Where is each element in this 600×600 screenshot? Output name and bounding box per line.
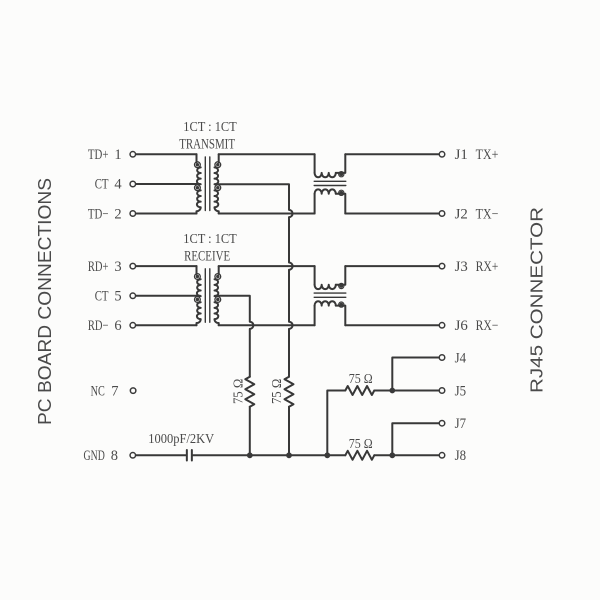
svg-text:4: 4: [114, 177, 122, 193]
svg-text:PC BOARD CONNECTIONS: PC BOARD CONNECTIONS: [35, 178, 55, 425]
svg-text:75 Ω: 75 Ω: [349, 436, 373, 451]
transformer T2 primary phase loop mid: [195, 297, 201, 303]
svg-text:RJ45 CONNECTOR: RJ45 CONNECTOR: [526, 207, 546, 393]
svg-text:RX−: RX−: [476, 318, 499, 334]
choke L2 bottom winding: [314, 306, 316, 326]
choke L1 bottom phase loop: [339, 190, 344, 195]
transformer T2 primary phase loop top: [195, 274, 201, 280]
resistor R2 75 ohm vertical: [285, 377, 294, 407]
transformer T2 primary winding: [196, 266, 198, 274]
junction node R2/ground rail: [286, 452, 292, 458]
junction node J4-branch/J5 row: [389, 388, 395, 394]
pin terminal 5: [130, 293, 136, 299]
svg-text:TD+: TD+: [88, 147, 109, 163]
phase dot choke L1 top: [339, 172, 343, 176]
wire T2 secondary center tap to resistor R1 with wire hop: [215, 296, 253, 377]
phase dot T2 primary top: [196, 275, 199, 278]
phase dot choke L1 bottom: [339, 191, 343, 195]
choke L1 bottom winding: [314, 194, 316, 214]
wire pin4 CT to T1 primary center tap: [136, 183, 200, 185]
svg-text:75 Ω: 75 Ω: [349, 371, 373, 386]
pin terminal 4: [130, 181, 136, 187]
svg-text:J4: J4: [455, 350, 467, 366]
svg-text:J3: J3: [455, 259, 468, 275]
phase dot choke L2 top: [339, 284, 343, 288]
transformer T1 secondary winding: [218, 154, 220, 162]
svg-text:1000pF/2KV: 1000pF/2KV: [148, 431, 214, 446]
wire T2 secondary bottom to choke L2: [219, 324, 315, 326]
wire choke L1 to J1: [345, 153, 438, 155]
capacitor C1 1000pF/2KV plates: [187, 450, 192, 461]
wire T1 secondary bottom to choke L1: [219, 213, 315, 215]
choke L2 top winding: [314, 266, 316, 285]
wire T1 secondary center tap to resistor R2 with wire hops: [215, 184, 293, 377]
svg-text:GND: GND: [84, 448, 105, 464]
resistor R4 75 ohm horizontal on ground rail: [345, 451, 374, 460]
svg-text:TRANSMIT: TRANSMIT: [179, 137, 235, 153]
wire T1 secondary top to choke L1: [219, 153, 315, 155]
pin terminal 2: [130, 211, 136, 217]
svg-text:J8: J8: [455, 448, 467, 464]
svg-text:2: 2: [114, 206, 121, 222]
phase dot T1 secondary top: [216, 163, 219, 166]
svg-text:J6: J6: [455, 318, 468, 334]
svg-text:75 Ω: 75 Ω: [230, 379, 245, 404]
svg-text:7: 7: [111, 383, 118, 399]
svg-text:CT: CT: [95, 289, 109, 305]
junction node J5-branch/ground rail: [324, 452, 330, 458]
wire choke L1 to J2: [345, 213, 438, 215]
terminal J1: [439, 152, 445, 158]
terminal J7: [439, 420, 445, 426]
phase dot choke L2 bottom: [339, 303, 343, 307]
svg-text:TX+: TX+: [476, 147, 499, 163]
svg-text:6: 6: [114, 318, 121, 334]
transformer T1 secondary phase loop top: [215, 162, 221, 168]
pin terminal 6: [130, 323, 136, 329]
wire pin6 RD- to T2 primary bottom: [136, 324, 196, 326]
wire R3 to J5: [374, 390, 438, 392]
wire pin3 RD+ to T2 primary top: [136, 265, 196, 267]
terminal J6: [439, 323, 445, 329]
svg-text:1CT : 1CT: 1CT : 1CT: [183, 120, 237, 135]
phase dot T2 primary mid: [196, 298, 199, 301]
wire pin2 TD- to T1 primary bottom: [136, 213, 196, 215]
svg-text:J1: J1: [455, 147, 468, 163]
svg-text:5: 5: [114, 289, 121, 305]
svg-text:1CT : 1CT: 1CT : 1CT: [183, 232, 237, 247]
wire branch to J5 row: [327, 391, 345, 456]
wire T2 secondary top to choke L2: [219, 265, 315, 267]
transformer T1 primary phase loop top: [195, 162, 201, 168]
choke L1 core: [314, 181, 346, 185]
transformer T1 primary phase loop mid: [195, 185, 201, 191]
transformer T2 secondary winding: [218, 266, 220, 274]
svg-text:J2: J2: [455, 206, 468, 222]
svg-text:RECEIVE: RECEIVE: [184, 248, 230, 264]
phase dot T2 secondary mid: [216, 298, 219, 301]
wire branch to J7: [392, 423, 438, 455]
transformer T1 core: [205, 157, 210, 211]
choke L2 top phase loop: [339, 283, 344, 288]
svg-text:TD−: TD−: [88, 206, 109, 222]
svg-text:J7: J7: [455, 416, 467, 432]
pin terminal 7 NC: [130, 388, 136, 394]
wire choke L2 to J3: [345, 265, 438, 267]
svg-text:CT: CT: [95, 177, 109, 193]
pin terminal 1: [130, 152, 136, 158]
svg-text:RD+: RD+: [88, 259, 109, 275]
choke L1 top winding: [314, 154, 316, 173]
wire choke L2 to J6: [345, 324, 438, 326]
junction node R1/ground rail: [247, 452, 253, 458]
wire branch to J4: [392, 358, 438, 391]
terminal J2: [439, 211, 445, 217]
terminal J8: [439, 453, 445, 459]
resistor R3 75 ohm horizontal: [345, 386, 374, 395]
choke L2 bottom phase loop: [339, 302, 344, 307]
terminal J5: [439, 388, 445, 394]
svg-text:1: 1: [114, 147, 121, 163]
svg-text:RX+: RX+: [476, 259, 499, 275]
phase dot T2 secondary top: [216, 275, 219, 278]
wire R1 bottom to ground rail: [249, 407, 251, 456]
pin terminal 8 GND: [130, 453, 136, 459]
choke L2 core: [314, 293, 346, 297]
svg-text:TX−: TX−: [476, 206, 499, 222]
transformer T1 secondary phase loop mid: [215, 185, 221, 191]
wire GND pin8 to capacitor C1: [136, 454, 186, 456]
wire R2 bottom to ground rail: [288, 407, 290, 456]
wire R4 to J8: [374, 454, 438, 456]
choke L1 top phase loop: [339, 172, 344, 177]
phase dot T1 primary top: [196, 163, 199, 166]
wire pin5 CT to T2 primary center tap: [136, 295, 200, 297]
svg-text:8: 8: [111, 448, 118, 464]
pin terminal 3: [130, 263, 136, 269]
svg-text:3: 3: [114, 259, 121, 275]
phase dot T1 secondary mid: [216, 186, 219, 189]
ground rail wire: [193, 454, 346, 456]
svg-text:RD−: RD−: [88, 318, 109, 334]
terminal J3: [439, 263, 445, 269]
phase dot T1 primary mid: [196, 186, 199, 189]
resistor R1 75 ohm vertical: [245, 377, 254, 407]
svg-text:J5: J5: [455, 383, 467, 399]
wire pin1 TD+ to T1 primary top: [136, 153, 196, 155]
svg-text:75 Ω: 75 Ω: [269, 379, 284, 404]
transformer T2 secondary phase loop top: [215, 274, 221, 280]
transformer T2 secondary phase loop mid: [215, 297, 221, 303]
transformer T2 core: [205, 269, 210, 323]
junction node J7-branch/ground rail: [389, 452, 395, 458]
svg-text:NC: NC: [91, 383, 105, 399]
transformer T1 primary winding: [196, 154, 198, 162]
terminal J4: [439, 355, 445, 361]
